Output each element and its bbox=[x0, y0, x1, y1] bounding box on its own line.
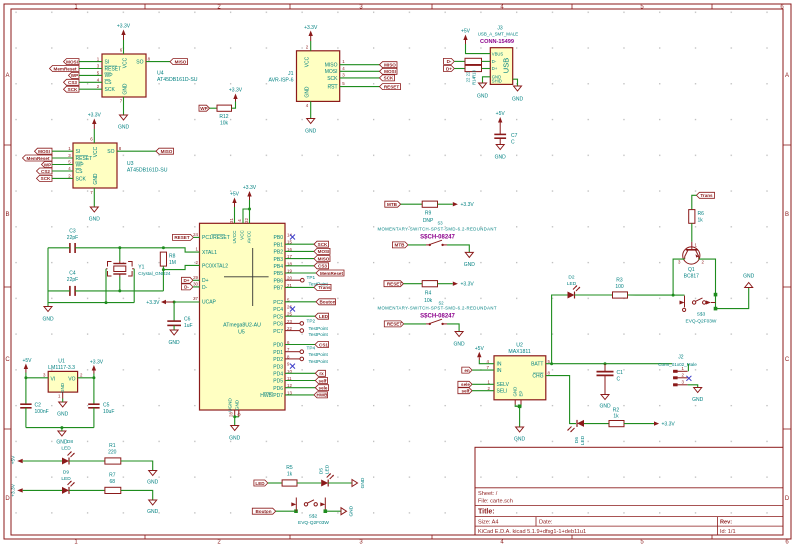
capacitor C1 C bbox=[597, 364, 624, 395]
svg-text:R13: R13 bbox=[472, 69, 477, 77]
svg-text:100: 100 bbox=[615, 284, 624, 290]
svg-text:MISO: MISO bbox=[161, 149, 173, 154]
power +3.3V (R9, right facing) bbox=[453, 202, 475, 208]
power +3.3V J1 bbox=[304, 25, 318, 41]
testpoint TP2 (PC6) bbox=[285, 319, 328, 331]
svg-text:+5V: +5V bbox=[230, 192, 240, 198]
svg-text:1k: 1k bbox=[698, 217, 704, 223]
svg-text:WP: WP bbox=[71, 73, 78, 78]
svg-text:LED: LED bbox=[61, 446, 71, 452]
svg-text:68: 68 bbox=[110, 479, 116, 485]
label MISO (U3) bbox=[156, 148, 174, 154]
svg-text:MISO: MISO bbox=[318, 256, 330, 261]
svg-text:MOMENTARY-SWITCH-SPST-SMD-6.2-: MOMENTARY-SWITCH-SPST-SMD-6.2-REDUNDANT bbox=[378, 226, 497, 231]
svg-text:C5: C5 bbox=[103, 403, 110, 409]
svg-text:UGND: UGND bbox=[228, 398, 233, 412]
svg-text:+3.3V: +3.3V bbox=[229, 88, 243, 94]
ground C1 bbox=[599, 395, 611, 410]
svg-text:A: A bbox=[5, 73, 9, 79]
svg-text:R2: R2 bbox=[613, 408, 620, 414]
wire U4 SO to MISO bbox=[146, 61, 170, 63]
svg-text:PB2: PB2 bbox=[274, 250, 284, 256]
svg-text:AVR-ISP-6: AVR-ISP-6 bbox=[269, 77, 294, 83]
label MISO (J1) bbox=[380, 62, 398, 68]
svg-text:1M: 1M bbox=[169, 260, 176, 266]
svg-text:GND: GND bbox=[477, 94, 489, 100]
svg-text:CS1: CS1 bbox=[319, 342, 328, 347]
svg-text:SO: SO bbox=[107, 149, 114, 155]
svg-text:D+: D+ bbox=[202, 278, 209, 284]
wire U4 GND bbox=[123, 97, 125, 115]
svg-text:BATT: BATT bbox=[531, 362, 543, 368]
svg-text:PD5: PD5 bbox=[273, 379, 283, 385]
wire R4 to +3.3V bbox=[438, 283, 453, 285]
svg-text:S$CH-08247: S$CH-08247 bbox=[420, 313, 455, 319]
svg-text:D9: D9 bbox=[63, 470, 69, 476]
junction S$3 top bbox=[714, 293, 718, 297]
svg-text:GND: GND bbox=[57, 412, 69, 418]
wire PB3 MISO bbox=[285, 258, 314, 260]
svg-text:SI: SI bbox=[76, 149, 81, 155]
svg-text:PC4: PC4 bbox=[273, 307, 283, 313]
svg-text:PD2: PD2 bbox=[273, 357, 283, 363]
resistor R3 100 bbox=[613, 278, 628, 299]
wire J1 VCC bbox=[310, 41, 312, 51]
svg-text:+3.3V: +3.3V bbox=[304, 25, 318, 31]
wire +3.3V to D9 bbox=[23, 489, 62, 491]
svg-text:D-: D- bbox=[447, 59, 452, 64]
wire J3 VBUS bbox=[466, 44, 491, 54]
wire +5V to U1 VI bbox=[26, 373, 48, 378]
svg-text:GND: GND bbox=[123, 83, 129, 95]
svg-text:GND: GND bbox=[60, 382, 65, 393]
svg-text:U3: U3 bbox=[127, 161, 134, 167]
svg-text:C: C bbox=[5, 357, 10, 363]
label CS2 (U3) bbox=[37, 168, 53, 174]
power +3.3V U5 bbox=[243, 185, 257, 200]
svg-text:PB5: PB5 bbox=[274, 271, 284, 277]
wire MTB to R9 bbox=[401, 203, 423, 205]
wire R12 to +3.3V bbox=[232, 102, 236, 109]
svg-text:VCC: VCC bbox=[123, 57, 129, 68]
svg-text:S$CH-08247: S$CH-08247 bbox=[420, 234, 455, 240]
wire D+ to R14 bbox=[454, 68, 465, 70]
svg-text:27: 27 bbox=[193, 296, 198, 301]
wire U4 VCC bbox=[123, 40, 125, 54]
svg-text:1k: 1k bbox=[613, 414, 619, 420]
svg-text:32: 32 bbox=[244, 218, 249, 223]
svg-text:PD4: PD4 bbox=[273, 372, 283, 378]
ground U1 bbox=[57, 399, 69, 418]
ground C6 bbox=[169, 330, 181, 346]
label SCK (U5 PB1) bbox=[314, 241, 329, 247]
svg-text:VCC: VCC bbox=[93, 146, 99, 157]
svg-text:BC817: BC817 bbox=[684, 274, 700, 280]
wire PC2 Bouton bbox=[285, 301, 316, 303]
svg-text:+3.3V: +3.3V bbox=[461, 282, 475, 288]
junction U5 GND bbox=[233, 415, 236, 418]
svg-text:Y1: Y1 bbox=[138, 264, 144, 270]
power +3.3V U4 bbox=[117, 24, 131, 41]
wire U3 SO to MISO bbox=[117, 150, 156, 152]
wire C5 to rail bbox=[93, 408, 95, 428]
label LED (U5 PC5) bbox=[315, 313, 329, 319]
label MOSI (J1) bbox=[380, 68, 398, 74]
svg-text:C4: C4 bbox=[69, 271, 76, 277]
label rx (U5 PD4) bbox=[315, 370, 325, 376]
svg-text:Conn_01x02_Male: Conn_01x02_Male bbox=[658, 362, 697, 367]
svg-text:EVQ-Q2F03W: EVQ-Q2F03W bbox=[686, 319, 717, 325]
connector J2 Conn_01x02_Male bbox=[658, 354, 697, 386]
wire R1 to GND bbox=[121, 461, 153, 471]
svg-text:GND: GND bbox=[42, 317, 54, 323]
svg-text:SI: SI bbox=[105, 59, 110, 65]
junction SW2 right bbox=[324, 509, 328, 513]
svg-text:GND: GND bbox=[495, 155, 507, 161]
LED D2 bbox=[567, 275, 580, 299]
charger U2 MAX1811 bbox=[487, 343, 551, 400]
svg-text:DNP: DNP bbox=[423, 218, 434, 224]
svg-text:MTB: MTB bbox=[395, 243, 406, 248]
svg-text:TP4: TP4 bbox=[307, 345, 316, 350]
ground row2 bbox=[147, 500, 159, 515]
svg-text:MTB: MTB bbox=[387, 202, 398, 207]
svg-text:VI: VI bbox=[51, 377, 56, 383]
label SCK (U4) bbox=[64, 86, 80, 92]
junction S$3 bottom bbox=[714, 307, 718, 311]
wire C4 net bbox=[48, 290, 163, 292]
svg-text:SELV: SELV bbox=[497, 382, 510, 388]
label LED (row3) bbox=[254, 480, 268, 486]
resistor R9 DNP bbox=[422, 201, 443, 226]
LED D6 bbox=[568, 420, 587, 445]
svg-text:10k: 10k bbox=[220, 121, 229, 127]
svg-text:C3: C3 bbox=[69, 229, 76, 235]
resistor R1 220 bbox=[105, 443, 121, 464]
ground U4 bbox=[118, 115, 130, 131]
svg-text:Date:: Date: bbox=[539, 520, 553, 526]
power +5V J3 bbox=[461, 29, 471, 45]
svg-text:WP: WP bbox=[44, 162, 51, 167]
svg-text:CS: CS bbox=[76, 169, 84, 175]
value 22 22 (R13 R14 rotated) bbox=[465, 69, 476, 84]
no-connect PC4 bbox=[290, 307, 295, 312]
svg-text:LM1117-3.3: LM1117-3.3 bbox=[48, 365, 75, 371]
svg-text:SCK: SCK bbox=[68, 87, 78, 92]
svg-text:100nF: 100nF bbox=[35, 409, 49, 415]
power +5V U2 bbox=[475, 346, 485, 360]
svg-text:RST: RST bbox=[328, 85, 338, 91]
wire R7 to GND bbox=[121, 490, 153, 500]
ground U3 bbox=[89, 207, 101, 223]
label Bouton (U5 PC2) bbox=[316, 299, 336, 305]
svg-text:UVCC: UVCC bbox=[232, 230, 237, 244]
svg-text:U1: U1 bbox=[58, 359, 65, 365]
svg-text:LED: LED bbox=[580, 435, 586, 445]
power +5V U5 bbox=[230, 192, 240, 208]
svg-text:MemReset: MemReset bbox=[320, 271, 343, 276]
no-connect J2 pin2 bbox=[686, 376, 691, 381]
svg-text:WP: WP bbox=[200, 106, 207, 111]
svg-text:MISO: MISO bbox=[175, 59, 187, 64]
resistor R14 22 bbox=[465, 65, 482, 71]
power +3.3V U1 bbox=[90, 359, 104, 373]
power +3.3V R12 bbox=[229, 88, 243, 102]
svg-text:AT45DB161D-SU: AT45DB161D-SU bbox=[157, 77, 198, 83]
label MISO (U4) bbox=[170, 59, 188, 65]
svg-text:S$3: S$3 bbox=[697, 312, 706, 318]
mcu U5 ATmega8U2-AU bbox=[193, 218, 292, 417]
svg-text:22: 22 bbox=[465, 77, 470, 82]
svg-text:22pF: 22pF bbox=[67, 277, 78, 283]
svg-text:PC5: PC5 bbox=[273, 314, 283, 320]
svg-text:en: en bbox=[464, 368, 470, 373]
capacitor C6 1uF bbox=[167, 302, 192, 330]
label MemReset (U4) bbox=[50, 66, 80, 72]
wire LED label to R5 bbox=[268, 482, 282, 484]
connector J3 USB_A_SMT_MALE bbox=[478, 26, 519, 85]
title block bbox=[475, 447, 783, 535]
svg-text:USB_A_SMT_MALE: USB_A_SMT_MALE bbox=[478, 32, 519, 37]
svg-text:EVQ-Q2F03W: EVQ-Q2F03W bbox=[298, 520, 329, 526]
wire J3 GND pin bbox=[483, 77, 491, 83]
junction U2 GND bbox=[518, 405, 522, 409]
wire J1 GND bbox=[310, 101, 312, 118]
svg-text:31: 31 bbox=[229, 218, 234, 223]
wire crystal bottom stub bbox=[119, 277, 121, 291]
svg-text:24: 24 bbox=[193, 232, 198, 237]
junction crystal bottom bbox=[118, 289, 121, 292]
label self (U2 SELI) bbox=[458, 388, 472, 394]
svg-text:+3.3V: +3.3V bbox=[461, 202, 475, 208]
svg-text:10uF: 10uF bbox=[103, 409, 114, 415]
flash U4 AT45DB161D-SU bbox=[97, 48, 198, 104]
svg-text:VCC: VCC bbox=[240, 229, 245, 239]
label MTB (R9) bbox=[385, 201, 401, 207]
svg-text:self: self bbox=[319, 378, 327, 383]
wire PB4 CS3 bbox=[285, 265, 314, 267]
svg-text:WP: WP bbox=[105, 73, 114, 79]
power +3.3V U3 bbox=[88, 113, 102, 130]
svg-text:RESET: RESET bbox=[387, 282, 403, 287]
label MOSI (U3) bbox=[35, 148, 53, 154]
power +5V C7 bbox=[496, 111, 506, 134]
svg-text:GND: GND bbox=[514, 437, 526, 443]
wire XTAL2 net bbox=[163, 265, 199, 269]
label SCK (J1) bbox=[380, 75, 395, 81]
wire J2 pin3 to GND bbox=[688, 385, 698, 388]
svg-text:Bouton: Bouton bbox=[255, 509, 271, 514]
svg-text:1uF: 1uF bbox=[184, 323, 193, 329]
svg-text:GND: GND bbox=[454, 342, 466, 348]
wire PD5 self bbox=[285, 380, 315, 382]
label MTB (S3) bbox=[392, 242, 408, 248]
svg-text:LED: LED bbox=[319, 314, 329, 319]
svg-text:R3: R3 bbox=[616, 278, 623, 284]
svg-text:+5V: +5V bbox=[11, 455, 17, 464]
LED D8 bbox=[61, 439, 74, 465]
wire +5V to D8 bbox=[23, 460, 62, 462]
svg-text:SELI: SELI bbox=[497, 389, 508, 395]
svg-text:22: 22 bbox=[465, 71, 470, 76]
label D+ (J3) bbox=[444, 66, 455, 72]
svg-text:S$2: S$2 bbox=[309, 514, 318, 520]
wire D- bbox=[193, 286, 200, 288]
label CS3 (U5 PB4) bbox=[314, 263, 329, 269]
svg-text:D2: D2 bbox=[568, 275, 574, 281]
svg-text:GND: GND bbox=[349, 505, 355, 516]
svg-text:MOSI: MOSI bbox=[325, 69, 338, 75]
label MemReset (U5 PB5) bbox=[316, 270, 344, 276]
label RESET (R4) bbox=[384, 281, 403, 287]
wire +5V to C2 bbox=[25, 378, 27, 404]
capacitor C5 10uF bbox=[88, 403, 114, 416]
svg-text:PD6: PD6 bbox=[273, 386, 283, 392]
wire R9 to +3.3V bbox=[438, 203, 453, 205]
svg-text:+3.3V: +3.3V bbox=[11, 483, 17, 496]
svg-text:C: C bbox=[511, 139, 515, 145]
ground C7 bbox=[495, 145, 507, 161]
svg-text:J1: J1 bbox=[288, 71, 294, 77]
svg-text:sele: sele bbox=[319, 386, 328, 391]
wire en to U2 bbox=[472, 369, 494, 371]
svg-text:PB4: PB4 bbox=[274, 264, 284, 270]
svg-text:IN: IN bbox=[497, 368, 502, 374]
svg-text:MOMENTARY-SWITCH-SPST-SMD-6.2-: MOMENTARY-SWITCH-SPST-SMD-6.2-REDUNDANT bbox=[378, 305, 497, 310]
svg-text:RESET: RESET bbox=[76, 156, 93, 162]
svg-text:U5: U5 bbox=[238, 330, 245, 336]
wire U2 CHG to D6 bbox=[546, 376, 576, 424]
wire PD4 rx bbox=[285, 372, 315, 374]
svg-text:RESET: RESET bbox=[174, 235, 190, 240]
label WP (U3) bbox=[42, 162, 53, 168]
svg-text:D-: D- bbox=[184, 285, 189, 290]
svg-text:C2: C2 bbox=[35, 403, 42, 409]
switch S$2 EVQ-Q2F03W bbox=[291, 498, 329, 527]
label HWB (U5 PD7) bbox=[314, 392, 328, 398]
wire U5 GND pins bbox=[235, 410, 239, 426]
ground J3 right bbox=[512, 86, 524, 103]
flash U3 AT45DB161D-SU bbox=[68, 137, 167, 196]
wire PD7 HWB bbox=[285, 394, 314, 396]
svg-text:rx: rx bbox=[319, 371, 324, 376]
svg-text:R14: R14 bbox=[472, 76, 477, 84]
svg-text:PC7: PC7 bbox=[273, 329, 283, 335]
resistor R6 1k bbox=[689, 210, 704, 224]
junction crystal top bbox=[118, 246, 121, 249]
label SCK (U3) bbox=[37, 175, 53, 181]
svg-text:MOSI: MOSI bbox=[38, 149, 50, 154]
capacitor C3 22pF bbox=[67, 229, 78, 254]
wire R2 to +3.3V bbox=[624, 423, 654, 425]
svg-text:SCK: SCK bbox=[327, 76, 338, 82]
ground SW2 (right facing) bbox=[341, 505, 355, 516]
svg-text:PD0: PD0 bbox=[273, 343, 283, 349]
wire SW2 to GND bbox=[325, 510, 341, 512]
junction rail bbox=[60, 426, 63, 429]
svg-text:R4: R4 bbox=[425, 290, 432, 296]
label sele (U2 SELV) bbox=[458, 381, 472, 387]
wire PD0 CS1 bbox=[285, 344, 315, 346]
ground J3 left bbox=[477, 83, 489, 100]
svg-text:D8: D8 bbox=[67, 439, 73, 445]
resistor R7 68 bbox=[105, 472, 121, 493]
wire self to U2 bbox=[472, 390, 494, 392]
wire RESET to U5 bbox=[193, 236, 199, 238]
svg-text:self: self bbox=[462, 389, 470, 394]
svg-text:Crystal_GND24: Crystal_GND24 bbox=[138, 271, 171, 276]
wire PB2 MOSI bbox=[285, 250, 314, 252]
junction C1 bbox=[604, 362, 607, 365]
svg-text:GND: GND bbox=[89, 217, 101, 223]
ground rail bbox=[56, 428, 68, 446]
label CS3 (U4) bbox=[64, 79, 80, 85]
svg-text:PC0/XTAL2: PC0/XTAL2 bbox=[202, 263, 228, 269]
svg-text:PB0: PB0 bbox=[274, 235, 284, 241]
testpoint TP4 (PD1) bbox=[285, 345, 328, 357]
junction U1 input bbox=[24, 376, 27, 379]
ground row3 (right facing) bbox=[352, 477, 366, 488]
junction BATT bbox=[550, 362, 553, 365]
svg-text:+3.3V: +3.3V bbox=[146, 300, 160, 306]
wire Trans to R6 bbox=[692, 195, 697, 209]
svg-text:C6: C6 bbox=[184, 316, 191, 322]
svg-text:Title:: Title: bbox=[478, 509, 495, 516]
svg-text:+5V: +5V bbox=[475, 346, 485, 352]
ground S2 bbox=[454, 332, 466, 348]
svg-text:GND: GND bbox=[360, 477, 366, 488]
wire D- to R13 bbox=[454, 60, 465, 62]
label MemReset (U3) bbox=[23, 155, 53, 161]
svg-text:SCK: SCK bbox=[318, 242, 328, 247]
label MISO (U5 PB3) bbox=[314, 256, 330, 262]
transistor Q1 BC817 bbox=[678, 242, 705, 280]
svg-text:TP1: TP1 bbox=[307, 275, 316, 280]
svg-text:B: B bbox=[785, 212, 789, 218]
svg-text:R7: R7 bbox=[109, 472, 116, 478]
svg-text:Q1: Q1 bbox=[688, 267, 695, 273]
label RESET (J1) bbox=[380, 84, 401, 90]
wire S3 to GND bbox=[447, 245, 469, 253]
wire RESET to R4 bbox=[403, 283, 422, 285]
svg-text:C: C bbox=[785, 357, 790, 363]
svg-text:+5V: +5V bbox=[496, 111, 506, 117]
wire U5 UVCC bbox=[234, 207, 236, 223]
svg-text:LED: LED bbox=[61, 476, 71, 482]
svg-text:D: D bbox=[785, 496, 790, 502]
wire D9 to R7 bbox=[69, 489, 105, 491]
ground row1 bbox=[147, 471, 159, 486]
svg-text:VCC: VCC bbox=[305, 56, 311, 67]
svg-text:30: 30 bbox=[193, 281, 198, 286]
label D- (U5) bbox=[182, 284, 194, 290]
svg-text:+3.3V: +3.3V bbox=[243, 185, 257, 191]
svg-text:SCK: SCK bbox=[105, 87, 116, 93]
wire R13 to J3 bbox=[482, 60, 491, 62]
svg-text:PD1: PD1 bbox=[273, 350, 283, 356]
wire PC5 LED bbox=[285, 315, 315, 317]
svg-text:+3.3V: +3.3V bbox=[662, 422, 676, 428]
junction R8 bottom bbox=[162, 268, 165, 271]
svg-text:+3.3V: +3.3V bbox=[90, 359, 104, 365]
svg-text:D+: D+ bbox=[183, 278, 189, 283]
svg-text:GND: GND bbox=[743, 274, 755, 280]
svg-text:D-: D- bbox=[202, 285, 208, 291]
wire crystal shield left bbox=[105, 269, 107, 303]
svg-text:PD3: PD3 bbox=[273, 364, 283, 370]
wires U3 left pins bbox=[52, 151, 73, 178]
wire WP to R12 bbox=[210, 107, 218, 109]
